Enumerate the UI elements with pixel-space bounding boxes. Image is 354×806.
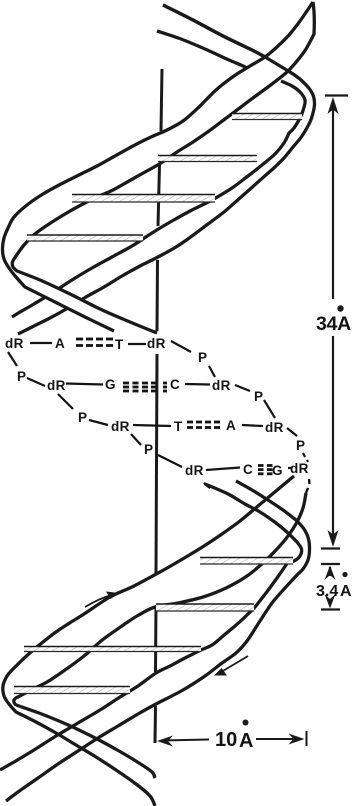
- svg-text:P: P: [17, 369, 26, 384]
- svg-text:dR: dR: [111, 419, 130, 434]
- svg-text:P: P: [254, 389, 263, 404]
- svg-text:T: T: [115, 337, 124, 352]
- svg-text:P: P: [296, 438, 305, 453]
- bottom helix strand R ribbon fill (to left fold, return clipped lower-right): [3, 476, 306, 806]
- svg-text:A: A: [239, 730, 253, 752]
- base-pair rungs, top helix: [232, 114, 302, 120]
- svg-text:34A: 34A: [316, 313, 351, 335]
- svg-text:dR: dR: [265, 420, 284, 435]
- svg-text:C: C: [170, 377, 180, 392]
- svg-text:10: 10: [215, 729, 237, 751]
- 10 angstrom dimension: [161, 731, 307, 746]
- svg-text:C: C: [243, 462, 253, 477]
- rungs bottom helix: [200, 558, 293, 565]
- schematic bonds: [8, 341, 297, 470]
- top helix strand 1 ribbon (back strand with right fold): [12, 5, 315, 334]
- 3.4 angstrom dimension: [321, 564, 340, 610]
- strand direction arrow lower-right: [221, 656, 248, 672]
- svg-text:A: A: [340, 583, 352, 600]
- svg-text:G: G: [272, 463, 283, 478]
- hydrogen bond dashes: [76, 339, 273, 474]
- svg-text:G: G: [105, 377, 116, 392]
- svg-text:T: T: [174, 419, 183, 434]
- svg-text:dR: dR: [185, 463, 204, 478]
- strand R edges: [3, 476, 294, 806]
- svg-text:3.4: 3.4: [316, 583, 338, 600]
- 34 angstrom dimension: [321, 96, 348, 549]
- svg-text:P: P: [198, 350, 207, 365]
- schematic labels: [5, 336, 309, 478]
- svg-text:P: P: [78, 410, 87, 425]
- svg-text:dR: dR: [212, 378, 231, 393]
- bottom helix strand L ribbon fill (to right fold, return sweeps lower-left): [0, 481, 310, 801]
- svg-text:A: A: [226, 418, 236, 433]
- strand L edges: [6, 481, 310, 801]
- svg-text:A: A: [55, 336, 65, 351]
- top helix strand 2 ribbon (front: top-right tip, left hairpin fold, return): [3, 2, 315, 333]
- svg-text:dR: dR: [47, 378, 66, 393]
- strand 1a upper edge re-drawn across strand 2 (X crossing): [163, 5, 300, 79]
- svg-text:dR: dR: [290, 461, 309, 476]
- helix central axis: [155, 69, 162, 743]
- dashed backbone links right side: [204, 453, 310, 493]
- svg-text:dR: dR: [147, 336, 166, 351]
- strand direction arrow upper-left: [85, 595, 112, 607]
- redraw backbone dashes over band fills: [204, 479, 310, 493]
- svg-text:dR: dR: [5, 336, 24, 351]
- svg-text:P: P: [144, 442, 153, 457]
